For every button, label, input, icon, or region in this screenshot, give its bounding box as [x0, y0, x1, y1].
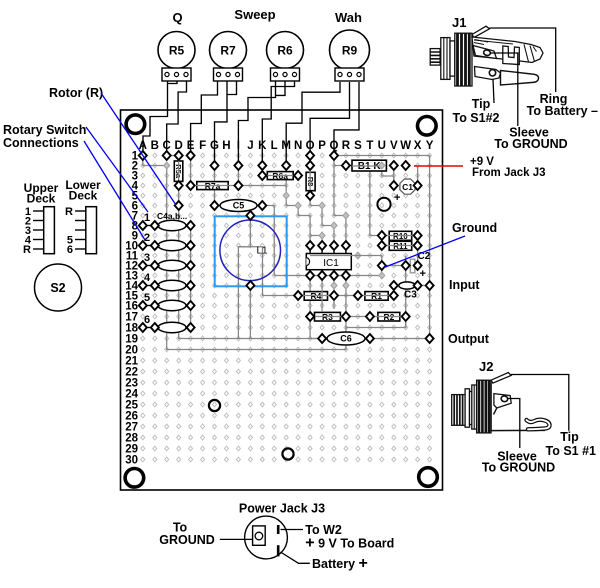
svg-text:30: 30 [125, 455, 138, 467]
resistor R11 [389, 241, 412, 250]
rotary connection pair link row 16 [143, 305, 155, 307]
callout line rotary 2 [84, 141, 145, 240]
hole near M29 [282, 448, 293, 459]
resistor R7a [197, 182, 228, 190]
node G2 [211, 161, 219, 170]
capacitor C6 [327, 332, 365, 345]
node A18 [139, 323, 147, 332]
capacitor C1 [400, 179, 415, 194]
gray junction U2 [379, 162, 385, 169]
switch S2 [35, 264, 82, 311]
node O10 [306, 241, 314, 250]
row numbers 1-30 [125, 151, 138, 467]
node Y19 [426, 334, 434, 343]
node U12 [378, 261, 386, 270]
wire Q1-Q7-R7-R10 [334, 156, 346, 246]
svg-text:C6: C6 [340, 334, 352, 344]
wire R9 lug1 to M2 [286, 82, 340, 166]
svg-text:R6: R6 [277, 44, 293, 58]
svg-text:Sweep: Sweep [234, 7, 275, 22]
node A10 [139, 241, 147, 250]
wire Q2-R2 [334, 165, 346, 167]
node M2 [282, 161, 290, 170]
svg-text:To S1#2: To S1#2 [452, 111, 499, 125]
jack J1 drawing [430, 26, 543, 86]
inductor L1 coil circle [220, 220, 281, 281]
capacitor C4 element row 10 [158, 240, 186, 250]
svg-text:Ground: Ground [452, 221, 497, 235]
node A1 [139, 151, 147, 160]
svg-text:Input: Input [449, 278, 480, 292]
node U9 [378, 231, 386, 240]
svg-text:J2: J2 [479, 359, 493, 374]
node V15 [390, 291, 398, 300]
svg-text:C1: C1 [402, 182, 413, 192]
wire R5 rotor+lug1 jumper to A1 [143, 81, 177, 156]
svg-text:Deck: Deck [27, 192, 56, 206]
node V4 [390, 181, 398, 190]
wire I2-I4 [237, 166, 239, 186]
svg-text:B: B [151, 140, 159, 152]
resistor R3 [315, 312, 341, 321]
svg-text:C2: C2 [418, 251, 431, 262]
callout line J1 tip [493, 79, 494, 103]
svg-text:Tip: Tip [560, 430, 579, 444]
rotary connection pair link row 14 [143, 285, 155, 287]
resistor R6a [267, 172, 293, 180]
wire O13-O19-P19 [310, 276, 322, 339]
svg-text:R: R [342, 140, 351, 152]
wire C1-D1 [167, 155, 179, 157]
callout line J2 tip [511, 375, 569, 431]
mounting hole bottom-right [419, 468, 438, 487]
node K6 [258, 201, 266, 210]
node S15 [354, 291, 362, 300]
svg-text:S2: S2 [50, 281, 65, 295]
potentiometer R6 [267, 32, 304, 69]
mounting hole top-left [126, 115, 145, 134]
svg-text:J: J [247, 140, 253, 152]
lower deck wafer [86, 207, 97, 254]
node B10 [151, 241, 159, 250]
svg-text:J1: J1 [452, 15, 466, 30]
svg-text:P: P [318, 140, 326, 152]
rotary connection pair link row 18 [143, 327, 155, 329]
wire R6 rotor jumper [276, 81, 286, 96]
svg-text:4: 4 [144, 272, 151, 284]
wire T2-T9-U9-U10 [370, 166, 382, 246]
wire R7 lug1 to E1 [191, 81, 218, 156]
node X14 [414, 281, 422, 290]
svg-text:R: R [23, 244, 31, 256]
svg-text:L: L [271, 140, 278, 152]
svg-text:R5: R5 [169, 44, 185, 58]
svg-text:C3: C3 [404, 290, 417, 301]
mounting hole top-right [418, 117, 437, 136]
svg-text:5: 5 [144, 292, 150, 304]
svg-text:U: U [378, 140, 386, 152]
capacitor C4 element row 8 [158, 220, 186, 230]
node V2 [390, 161, 398, 170]
wire R7 lug3 jumper + rotor to G2 [215, 81, 237, 166]
capacitor C5 [220, 200, 257, 212]
resistor R5a [174, 161, 183, 181]
wire J7-L1 tap-I19 [238, 216, 250, 339]
node D4 [175, 181, 183, 190]
svg-text:3: 3 [144, 252, 150, 264]
node X4 [414, 181, 422, 190]
potentiometer R7 [210, 32, 247, 69]
node R17 [342, 312, 350, 321]
node Q10 [330, 241, 338, 250]
node O5 [306, 191, 314, 200]
potentiometer R9 [330, 30, 370, 70]
rotary connection pair link row 12 [143, 265, 155, 267]
capacitor C4 element row 18 [158, 322, 186, 332]
svg-text:+: + [420, 268, 426, 280]
IC1 pin stubs [309, 246, 311, 254]
perfboard PCB [121, 110, 443, 490]
svg-text:6: 6 [144, 314, 150, 326]
node R2 [342, 161, 350, 170]
wire A1-C2-C20-R20-R18-W17 [143, 156, 406, 350]
svg-text:To S1 #1: To S1 #1 [546, 444, 597, 458]
node B16 [151, 301, 159, 310]
wire R9 rotor to O1 [310, 82, 349, 156]
node Y14 [426, 281, 434, 290]
resistor R4 [304, 292, 327, 301]
svg-text:Tip: Tip [472, 97, 491, 111]
svg-text:W: W [400, 140, 411, 152]
wire R2-U2 over B1K box [352, 165, 382, 167]
node B14 [151, 281, 159, 290]
node A8 [139, 221, 147, 230]
wire O17-R17 through R3 [310, 316, 346, 318]
node E4 [187, 181, 195, 190]
wire D1-D4 through R5a [178, 156, 180, 186]
svg-text:Battery +: Battery + [312, 555, 368, 572]
node D6 [175, 201, 183, 210]
svg-text:T: T [366, 140, 373, 152]
callout line battery [281, 552, 310, 563]
node Q13 [330, 271, 338, 280]
node B8 [151, 221, 159, 230]
callout line ground to U12 [384, 236, 465, 268]
wire K3-N3 through R6a [262, 175, 298, 177]
node P19 [318, 334, 326, 343]
node X12 [414, 261, 422, 270]
wire Q13-Q16 [333, 276, 335, 310]
resistor R1 [365, 292, 388, 301]
node E18 [187, 323, 195, 332]
wire X10-X12 [417, 246, 419, 266]
wire U10-X10 through R11 [382, 245, 418, 247]
wire R6 lug1 to I2 [238, 81, 275, 166]
+9V feed red line [414, 165, 463, 167]
wire R9 lug3 to Q1 [334, 82, 359, 156]
svg-text:+: + [394, 192, 400, 204]
node W12 [402, 261, 410, 270]
wire S15-V15 through R1 [358, 295, 394, 297]
svg-text:C4a,b...: C4a,b... [157, 211, 187, 221]
node R13 [342, 271, 350, 280]
svg-text:Rotary Switch: Rotary Switch [3, 123, 86, 137]
node D1 [175, 151, 183, 160]
node N15 [294, 291, 302, 300]
wire X14-Y14 [418, 285, 430, 287]
wire Q1-Y1-Y19 [334, 156, 430, 339]
svg-text:H: H [222, 140, 230, 152]
wire W11-W12-W17-W18 [405, 256, 407, 328]
node G6 [211, 201, 219, 210]
callout line J1 sleeve [490, 53, 518, 126]
wire O2-O5 through R8 [309, 166, 311, 196]
svg-text:Y: Y [426, 140, 434, 152]
wire O11-U11-U12 (over IC) [310, 256, 382, 266]
gray junction dots [295, 202, 301, 209]
node C1 [163, 151, 171, 160]
svg-text:V: V [390, 140, 398, 152]
capacitor C3 [399, 282, 415, 289]
wire L1 tap-K15-N15 [238, 247, 298, 296]
wire T17-W17 through R2 [370, 316, 406, 318]
power jack J3 drawing [245, 516, 288, 559]
node B18 [151, 323, 159, 332]
wire U9-X9 through R10 [382, 235, 418, 237]
node N3 [294, 171, 302, 180]
node J14 [246, 281, 254, 290]
capacitor C4 element row 12 [158, 260, 186, 270]
node W2 [402, 161, 410, 170]
wire X2-X4 [417, 166, 419, 186]
wire N15-Q15 through R4 [298, 295, 334, 297]
svg-text:To Battery –: To Battery – [527, 104, 598, 118]
node E16 [187, 301, 195, 310]
wire R13-R17-R18 [345, 276, 347, 328]
wire G2-G6 [214, 166, 216, 206]
resistor B1 K [352, 160, 386, 171]
svg-text:1: 1 [144, 212, 150, 224]
svg-text:Output: Output [448, 332, 490, 346]
svg-text:Rotor (R): Rotor (R) [49, 86, 103, 100]
wire M4-N6-N7-O7-O10 [286, 186, 310, 246]
callout line rotor to D6 [101, 93, 176, 205]
node Q1 [330, 151, 338, 160]
jack J2 drawing [452, 373, 550, 433]
node T19 [366, 334, 374, 343]
node A14 [139, 281, 147, 290]
svg-text:R10: R10 [393, 232, 408, 241]
svg-text:To GROUND: To GROUND [494, 137, 567, 151]
svg-text:Connections: Connections [3, 136, 79, 150]
node B12 [151, 261, 159, 270]
wire E1-E4 [190, 156, 192, 186]
svg-text:Q: Q [172, 10, 182, 25]
svg-text:GROUND: GROUND [159, 533, 215, 547]
wire V2-V4 [393, 166, 395, 186]
wire M2-M4 [285, 166, 287, 186]
node E8 [187, 221, 195, 230]
op-amp IC1 [306, 254, 351, 270]
rotary connection pair link row 10 [143, 245, 155, 247]
node X9 [414, 231, 422, 240]
mounting hole bottom-left [125, 469, 144, 488]
svg-text:C5: C5 [233, 201, 245, 211]
svg-text:R: R [65, 206, 73, 218]
node O17 [306, 312, 314, 321]
wire O1-O2 [309, 156, 311, 166]
wire T19-Y19 [370, 338, 430, 340]
wire K6-L6-L13 [262, 206, 274, 276]
svg-text:F: F [199, 140, 206, 152]
wire D4-D19-P19 [179, 186, 322, 339]
node A12 [139, 261, 147, 270]
node E10 [187, 241, 195, 250]
wire P13-P17 over R4 box [321, 276, 323, 313]
node I2 [234, 161, 242, 170]
node I4 [234, 181, 242, 190]
svg-text:L1: L1 [257, 246, 269, 257]
node O2 [306, 161, 314, 170]
callout line J1 ring [490, 28, 556, 92]
node P13 [318, 271, 326, 280]
wire J14-J19 [249, 286, 251, 339]
svg-text:2: 2 [144, 232, 150, 244]
node K2 [258, 161, 266, 170]
column letters A-Y [139, 140, 434, 152]
wire R5 lug3 to C1 [167, 81, 187, 156]
node E12 [187, 261, 195, 270]
node U10 [378, 241, 386, 250]
node X10 [414, 241, 422, 250]
capacitor C2 [410, 259, 415, 273]
node T17 [366, 312, 374, 321]
svg-text:Wah: Wah [335, 10, 362, 25]
upper deck wafer [44, 207, 55, 254]
capacitor C4 element row 14 [158, 280, 186, 290]
node Q15 [330, 291, 338, 300]
wire R2-U2-V4 feed [346, 166, 394, 186]
node O13 [306, 271, 314, 280]
svg-text:X: X [414, 140, 422, 152]
node V14 [390, 281, 398, 290]
wire I4-M4 [238, 185, 286, 187]
inductor L1 outline square [215, 216, 287, 286]
wire O5-P6-P8-Q8-Q10 [310, 196, 334, 246]
svg-text:R9: R9 [342, 44, 358, 58]
node R10 [342, 241, 350, 250]
hole near U5 [377, 198, 390, 211]
node O1 [306, 151, 314, 160]
hole near G25 [209, 400, 220, 411]
rotary connection pair link row 8 [143, 225, 155, 227]
node A16 [139, 301, 147, 310]
resistor R8 [306, 172, 315, 190]
svg-text:Deck: Deck [69, 189, 98, 203]
resistor R10 [389, 231, 412, 240]
capacitor C4 element row 16 [158, 300, 186, 310]
svg-text:R7: R7 [220, 44, 236, 58]
svg-text:+ 9 V To Board: + 9 V To Board [305, 535, 394, 552]
node W17 [402, 312, 410, 321]
svg-text:IC1: IC1 [323, 258, 339, 269]
potentiometer R5 [158, 32, 195, 69]
wire E8-E18 [190, 226, 192, 328]
callout line rotary 1 [86, 127, 148, 212]
wire K2-K3 [261, 166, 263, 176]
wire E4-I4 through R7a [191, 185, 239, 187]
wire U12-U13-L13 [274, 266, 382, 276]
resistor R2 [378, 312, 400, 321]
svg-text:6: 6 [67, 244, 73, 256]
node K3 [258, 171, 266, 180]
wire Q15-R15-S15 [334, 295, 358, 297]
svg-text:To GROUND: To GROUND [482, 461, 555, 475]
callout line to ground [220, 538, 253, 540]
perfboard grid holes [141, 153, 432, 462]
wire O9-P9-P10 [310, 236, 322, 246]
node P10 [318, 241, 326, 250]
svg-text:From Jack J3: From Jack J3 [472, 167, 546, 179]
callout line J2 sleeve [507, 399, 520, 449]
svg-text:Power Jack J3: Power Jack J3 [239, 502, 325, 516]
svg-text:R11: R11 [393, 242, 408, 251]
callout line to W2 [281, 529, 304, 531]
svg-text:S: S [354, 140, 362, 152]
node E14 [187, 281, 195, 290]
wire R17-S17-T17 [346, 316, 370, 318]
node E1 [187, 151, 195, 160]
node J7 [246, 211, 254, 220]
svg-text:N: N [294, 140, 302, 152]
wire R6 lug3 to K2 [262, 81, 294, 166]
wire U12-W12 [382, 265, 406, 267]
